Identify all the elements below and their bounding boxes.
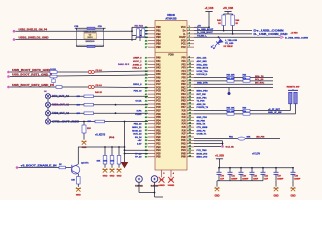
svg-text:INT4_TX: INT4_TX bbox=[197, 123, 206, 126]
ground flag C47 bbox=[273, 181, 278, 198]
svg-text:GND_JP_SW: GND_JP_SW bbox=[268, 112, 282, 114]
svg-text:GND: GND bbox=[214, 195, 219, 197]
wire collector up bbox=[77, 147, 79, 164]
svg-text:PD3: PD3 bbox=[156, 124, 161, 126]
svg-text:VCC: VCC bbox=[181, 27, 186, 29]
svg-text:PD4: PD4 bbox=[156, 119, 161, 122]
svg-text:100NF: 100NF bbox=[294, 179, 301, 181]
U5 bottom-section pin row 6 (PA5/PF5) bbox=[145, 73, 194, 76]
svg-text:PK3: PK3 bbox=[181, 94, 186, 96]
connector J4 pin 3 bbox=[45, 111, 69, 116]
svg-text:TP_29: TP_29 bbox=[135, 153, 142, 155]
wire D- row bbox=[194, 32, 252, 34]
U5 reference designator label bbox=[165, 14, 176, 20]
node net label left row 26 bbox=[138, 140, 142, 142]
svg-text:C4 1N: C4 1N bbox=[50, 68, 56, 71]
capacitor C40 bbox=[239, 167, 249, 181]
svg-text:+5V: +5V bbox=[197, 26, 201, 28]
wire LED row bbox=[194, 35, 280, 38]
ground flag R42 bbox=[116, 168, 121, 177]
U5 bottom-section pin row 2 (PA1/PF1) bbox=[145, 60, 194, 63]
svg-text:PK7: PK7 bbox=[181, 107, 186, 109]
svg-text:PK0: PK0 bbox=[181, 84, 186, 86]
wire bottom right row3 with port bbox=[194, 141, 235, 149]
svg-text:R4AD J5 R: R4AD J5 R bbox=[118, 63, 130, 66]
svg-text:PE0: PE0 bbox=[156, 137, 161, 139]
capacitor C48 bbox=[291, 167, 301, 181]
wire D+ row bbox=[194, 29, 252, 31]
U5 bottom-section pin row 20 (PD4/PJ3) bbox=[145, 119, 194, 122]
label R44 J5 bbox=[118, 63, 130, 66]
svg-text:SCK_23: SCK_23 bbox=[133, 134, 142, 136]
svg-text:SDA_D1: SDA_D1 bbox=[255, 75, 264, 78]
svg-text:ADC_9M1: ADC_9M1 bbox=[197, 60, 208, 63]
node +5_KEYS label bbox=[95, 135, 106, 137]
node net label right row 24 bbox=[197, 134, 208, 136]
svg-text:UCAP: UCAP bbox=[179, 36, 186, 39]
node net label left row 31 bbox=[135, 157, 142, 159]
power flag +5_USB caps bbox=[215, 156, 224, 168]
testpoint TP1 bbox=[135, 176, 143, 188]
svg-text:PC3: PC3 bbox=[156, 97, 161, 99]
power flag +5_USB top bbox=[205, 8, 214, 27]
node USB_SHIELD_GND2 port bbox=[13, 38, 49, 41]
wire bottom right row2 bbox=[194, 143, 223, 145]
resistor R45 bbox=[217, 14, 225, 32]
svg-text:PB3: PB3 bbox=[156, 37, 161, 39]
node net label right row 3 bbox=[197, 63, 209, 66]
node D-_USB_CONN label bbox=[254, 33, 288, 36]
ground flag C48 bbox=[290, 181, 295, 198]
svg-text:PH1: PH1 bbox=[181, 140, 186, 142]
capacitor C70 bbox=[217, 167, 225, 181]
svg-text:PD6: PD6 bbox=[156, 114, 161, 116]
node net label left row 21 bbox=[134, 124, 143, 126]
node net label right row 12 bbox=[197, 94, 207, 96]
svg-text:PH4: PH4 bbox=[181, 149, 186, 152]
svg-text:+5_KEYS: +5_KEYS bbox=[95, 135, 106, 137]
wire base row bbox=[18, 167, 71, 169]
resistor R31 bbox=[227, 108, 235, 112]
node net label right row 19 bbox=[197, 117, 208, 119]
node UBOOT3 port bbox=[7, 85, 55, 88]
ground flag R41 bbox=[109, 168, 114, 177]
resistor R22 bbox=[227, 78, 235, 82]
wire U3 to series resistors row2 bbox=[104, 37, 149, 39]
wire vertical joint x132 bbox=[132, 27, 148, 41]
connector J4 label bbox=[44, 90, 47, 93]
wire U3 to series resistors row1 bbox=[104, 27, 149, 31]
svg-text:10NF: 10NF bbox=[253, 179, 259, 181]
ground flag R40 bbox=[102, 168, 107, 177]
U5 bottom-section pin row 28 (PE3/PH3) bbox=[145, 145, 194, 148]
U5 bottom-section pin row 25 (PE0/PH0) bbox=[145, 136, 194, 139]
fuse F1 row 72 bbox=[88, 70, 102, 74]
U5 bottom-section pin row 23 (PD1/PJ6) bbox=[145, 129, 194, 132]
svg-text:PB0: PB0 bbox=[156, 27, 161, 29]
wire right row R22 bbox=[194, 79, 273, 81]
svg-text:GND_DTR: GND_DTR bbox=[197, 82, 208, 84]
svg-text:F1 0.5: F1 0.5 bbox=[96, 70, 103, 72]
svg-text:D3 YELW: D3 YELW bbox=[224, 46, 233, 48]
svg-text:D-_USB_CONN_PAD: D-_USB_CONN_PAD bbox=[254, 33, 288, 36]
U5 bottom-section pin row 24 (PD0/PJ7) bbox=[145, 132, 194, 135]
resistor R40 label bbox=[95, 91, 103, 94]
wire pullup rail bbox=[78, 146, 125, 148]
svg-text:PD0: PD0 bbox=[156, 134, 161, 136]
node UBOOT2 port bbox=[7, 75, 52, 78]
svg-text:10K: 10K bbox=[111, 161, 115, 163]
svg-text:UGND: UGND bbox=[168, 185, 175, 187]
node net label left row 22 bbox=[132, 127, 142, 129]
node BOOT_EN port bbox=[16, 165, 57, 169]
svg-text:PC7: PC7 bbox=[156, 84, 161, 86]
resistor box row 87 bbox=[56, 86, 62, 89]
svg-text:CLKO: CLKO bbox=[135, 114, 141, 116]
U5 bottom-section pin row 11 (PC5/PK2) bbox=[145, 89, 194, 92]
connector J4 pin 2 bbox=[45, 102, 69, 107]
svg-text:100NF: 100NF bbox=[242, 179, 249, 181]
svg-text:PK4: PK4 bbox=[181, 96, 186, 99]
svg-text:PC2: PC2 bbox=[156, 101, 161, 103]
U3 bottom text bbox=[86, 41, 95, 43]
svg-text:PC0: PC0 bbox=[181, 40, 186, 42]
svg-text:D-: D- bbox=[183, 34, 186, 36]
node net label right row 11 bbox=[197, 91, 209, 93]
no-connect flag AGND bbox=[158, 177, 165, 187]
resistor R37 base bbox=[59, 164, 66, 169]
wire USB row1 left bbox=[15, 30, 76, 32]
svg-text:OC0B_T1: OC0B_T1 bbox=[197, 134, 208, 136]
svg-text:AGND_2: AGND_2 bbox=[133, 63, 143, 66]
capacitor C42 bbox=[250, 167, 259, 181]
svg-text:R21 22R: R21 22R bbox=[227, 75, 235, 77]
connector J4 pin 4 bbox=[45, 119, 80, 124]
svg-text:PCINT8_T0: PCINT8_T0 bbox=[197, 107, 209, 109]
svg-text:PD5_10: PD5_10 bbox=[134, 91, 143, 93]
svg-text:AVCC_1: AVCC_1 bbox=[133, 60, 142, 63]
node net label right row 29 bbox=[197, 150, 208, 152]
node net label right row 31 bbox=[197, 157, 208, 159]
U5 bottom-section pin row 9 (PC7/PK0) bbox=[145, 83, 194, 86]
svg-text:MISO_3V3: MISO_3V3 bbox=[197, 157, 208, 159]
U5 bottom-section pin row 26 (PE1/PH1) bbox=[145, 139, 194, 142]
wire SW1 leg1 bbox=[194, 104, 290, 111]
svg-text:PC5: PC5 bbox=[156, 91, 161, 93]
svg-text:RST_DW: RST_DW bbox=[197, 94, 207, 96]
svg-text:PE2_20: PE2_20 bbox=[134, 124, 143, 126]
svg-text:AIN0_D6: AIN0_D6 bbox=[197, 103, 207, 106]
capacitor C41 bbox=[228, 167, 238, 181]
svg-text:UVCON_D: UVCON_D bbox=[197, 74, 208, 76]
U3 top text bbox=[84, 32, 97, 34]
svg-text:UID_PIN: UID_PIN bbox=[256, 137, 265, 139]
resistor box row 72 bbox=[50, 68, 57, 73]
svg-text:D_USB_GND_CONN: D_USB_GND_CONN bbox=[285, 37, 308, 39]
U5 top-section pin row 2 (PB1/D+) bbox=[145, 29, 194, 32]
no-connect flag UGND bbox=[168, 177, 175, 187]
wire J4 chain bbox=[47, 116, 49, 119]
svg-text:D+_USB_CONN: D+_USB_CONN bbox=[254, 31, 285, 33]
svg-text:XTAL_EX2: XTAL_EX2 bbox=[197, 63, 209, 66]
wire row 72 bbox=[10, 71, 148, 72]
wire caps top bus bbox=[219, 167, 293, 169]
resistor R42 pulldown bbox=[111, 146, 121, 168]
node net label right row 23 bbox=[197, 129, 207, 132]
svg-text:GND: GND bbox=[110, 176, 115, 178]
wire J4 row 1 to U5 bbox=[51, 95, 148, 97]
svg-text:INT_RTC: INT_RTC bbox=[255, 82, 265, 84]
svg-text:PB1: PB1 bbox=[156, 31, 161, 33]
wire bottom right row1 bbox=[194, 140, 223, 142]
U5 bottom-section pin row 1 (PA0/PF0) bbox=[145, 56, 194, 59]
U5 top-section pin row 1 (PB0/VCC) bbox=[145, 26, 194, 29]
RZ labels bbox=[135, 26, 144, 28]
svg-text:100NF: 100NF bbox=[231, 179, 238, 181]
node net label right row 16 bbox=[197, 107, 209, 109]
junction dots USB routing bbox=[131, 30, 141, 36]
svg-text:3.3V: 3.3V bbox=[137, 144, 142, 146]
svg-text:UC3X_T2A: UC3X_T2A bbox=[197, 70, 209, 73]
svg-text:GND: GND bbox=[117, 176, 122, 178]
node net label right row 6 bbox=[197, 74, 208, 76]
svg-text:PC2: PC2 bbox=[181, 47, 186, 49]
resistor R33 bbox=[243, 108, 251, 112]
U5 top-section pin row 4 (PB3/UCAP) bbox=[145, 35, 194, 39]
svg-text:100NF: 100NF bbox=[277, 179, 284, 181]
node +5 R50 label bbox=[291, 32, 299, 34]
node net label right row 21 bbox=[197, 123, 206, 126]
wire +5 rail vertical bbox=[124, 121, 126, 147]
svg-text:PD1: PD1 bbox=[156, 130, 161, 132]
node net label left row 23 bbox=[132, 130, 142, 132]
svg-text:10K: 10K bbox=[104, 161, 108, 163]
node net label left row 17 bbox=[137, 111, 143, 113]
ground flag under C30 bbox=[81, 141, 86, 150]
svg-text:PH5: PH5 bbox=[181, 153, 186, 155]
U5 bottom-section pin row 21 (PD3/PJ4) bbox=[145, 122, 194, 125]
resistor RN row 2 bbox=[77, 103, 94, 106]
svg-text:GND: GND bbox=[82, 147, 87, 149]
svg-text:MISO_PB3: MISO_PB3 bbox=[197, 91, 209, 93]
U5 top-section pin row 5 (PB4/PC0) bbox=[145, 39, 194, 42]
svg-text:PC2_TMS: PC2_TMS bbox=[197, 150, 208, 152]
U5 bottom-section pin row 13 (PC3/PK4) bbox=[145, 96, 194, 99]
node net label left row 24 bbox=[133, 134, 142, 136]
svg-text:PE3: PE3 bbox=[156, 147, 161, 149]
resistor R24 bbox=[243, 77, 251, 82]
wire J4 row 4 to U5 bbox=[51, 121, 148, 123]
svg-text:1K: 1K bbox=[218, 23, 221, 25]
testpoint TP2 bbox=[151, 176, 159, 188]
U5 bottom-section pin row 10 (PC6/PK1) bbox=[145, 86, 194, 89]
wire right row UID with ferrite bbox=[194, 136, 280, 140]
svg-text:+5_JP_RST: +5_JP_RST bbox=[268, 109, 281, 111]
wire J4 row 3 to U5 bbox=[51, 112, 148, 114]
svg-text:R40 1K: R40 1K bbox=[95, 91, 103, 94]
capacitor C30 vertical bbox=[82, 121, 91, 140]
resistor R34 bbox=[243, 110, 251, 115]
capacitor C top of U3 bbox=[74, 26, 105, 30]
svg-text:SS_24: SS_24 bbox=[135, 136, 142, 139]
svg-text:PK2: PK2 bbox=[181, 91, 186, 93]
resistor RZ1 bbox=[136, 29, 139, 37]
resistor box row 76.5 bbox=[50, 75, 57, 83]
svg-text:GND: GND bbox=[103, 176, 108, 178]
node net label left row 9 bbox=[133, 84, 142, 86]
svg-text:+5 3.3V: +5 3.3V bbox=[252, 154, 260, 156]
svg-text:PC0: PC0 bbox=[156, 107, 161, 109]
wire J4 row 2 to U5 bbox=[51, 104, 148, 106]
U5 bottom-section pin row 14 (PC2/PK5) bbox=[145, 99, 194, 102]
svg-text:PA6: PA6 bbox=[156, 77, 161, 80]
wire row 87 bbox=[10, 86, 148, 89]
U5 bottom-section pin row 19 (PD5/PJ2) bbox=[145, 116, 194, 119]
svg-text:PB5: PB5 bbox=[156, 44, 161, 46]
ground flag Q2 bbox=[76, 187, 81, 196]
capacitor C bottom of U3 bbox=[77, 45, 104, 47]
U5 bottom-section pin row 16 (PC0/PK7) bbox=[145, 106, 194, 109]
node net label left row 27 bbox=[137, 144, 142, 146]
svg-text:GND: GND bbox=[290, 195, 295, 197]
wire right row 84.2 bbox=[194, 82, 273, 84]
U5 bottom-section pin row 12 (PC4/PK3) bbox=[145, 93, 194, 96]
wire emitter down bbox=[77, 174, 79, 177]
capacitor C44 bbox=[261, 167, 269, 181]
svg-text:XTAL2_3: XTAL2_3 bbox=[132, 67, 142, 70]
svg-text:TX_LED: TX_LED bbox=[225, 43, 234, 45]
node net label right row 14 bbox=[197, 101, 206, 103]
svg-text:AIN2_P2: AIN2_P2 bbox=[197, 129, 207, 132]
svg-text:PE2: PE2 bbox=[156, 144, 161, 146]
wire caps bottom bus bbox=[217, 181, 263, 187]
fuse F2 row 87 bbox=[88, 85, 102, 89]
capacitor C47 bbox=[274, 167, 284, 181]
U5 bottom-section pin row 30 (PE5/PH5) bbox=[145, 152, 194, 155]
U5 bottom-section pin row 5 (PA4/PF4) bbox=[145, 70, 194, 73]
svg-text:RXD1_8: RXD1_8 bbox=[133, 84, 142, 86]
svg-text:PA7: PA7 bbox=[156, 80, 161, 83]
node net label left row 30 bbox=[135, 153, 142, 155]
svg-text:ICP1: ICP1 bbox=[137, 111, 143, 113]
node (R14) label bbox=[109, 136, 115, 139]
svg-text:AGND: AGND bbox=[158, 184, 165, 187]
node net label left row 4 bbox=[132, 67, 142, 70]
node net label left row 1 bbox=[133, 57, 142, 60]
svg-text:PD7: PD7 bbox=[156, 111, 161, 113]
svg-text:SCL_D0: SCL_D0 bbox=[255, 79, 264, 81]
resistor RN row 1 bbox=[77, 95, 94, 98]
U5 bottom-section pin row 15 (PC1/PK6) bbox=[145, 103, 194, 106]
resistor RZ2 bbox=[142, 29, 145, 37]
svg-text:+5V: +5V bbox=[138, 140, 142, 142]
resistor R23 bbox=[243, 75, 251, 79]
node net label left row 2 bbox=[133, 60, 142, 63]
svg-text:PA5: PA5 bbox=[156, 73, 161, 76]
power flag +5V pullups bbox=[223, 8, 234, 14]
wire to pin row 33.9 bbox=[140, 34, 148, 36]
svg-text:PK5: PK5 bbox=[181, 101, 186, 103]
node net label right row 1 bbox=[197, 57, 207, 60]
U5 bottom-section pin row 7 (PA6/PF6) bbox=[145, 75, 194, 79]
svg-text:PE5: PE5 bbox=[156, 153, 161, 155]
svg-text:PA0: PA0 bbox=[156, 57, 161, 60]
svg-text:Gnd_Sh: Gnd_Sh bbox=[226, 146, 235, 148]
wire SW1 leg2 bbox=[194, 104, 296, 114]
resistor R40 pulldown bbox=[97, 146, 107, 168]
node net label left row 18 bbox=[135, 114, 141, 116]
LED D3 bbox=[211, 37, 238, 49]
wire through U3 row1 bbox=[77, 30, 104, 32]
svg-text:R32 10K: R32 10K bbox=[227, 111, 235, 113]
svg-text:60R: 60R bbox=[247, 136, 251, 138]
svg-text:RESET1 SW: RESET1 SW bbox=[287, 86, 301, 88]
svg-text:SS_PB0: SS_PB0 bbox=[197, 120, 206, 122]
svg-text:D+_USB_BOOT: D+_USB_BOOT bbox=[197, 29, 214, 31]
svg-text:PC1: PC1 bbox=[156, 104, 161, 106]
wire right row R21 bbox=[194, 75, 273, 78]
node net label right row 30 bbox=[197, 153, 208, 155]
node net label left row 14 bbox=[135, 100, 141, 103]
switch SW1 body bbox=[288, 89, 298, 104]
svg-text:PC6: PC6 bbox=[156, 87, 161, 89]
resistor R32 bbox=[227, 111, 235, 115]
node net label right row 2 bbox=[197, 60, 208, 63]
node net label right row 20 bbox=[197, 120, 206, 122]
ground flag caps group1 bbox=[214, 187, 219, 197]
svg-text:+5 R50: +5 R50 bbox=[291, 32, 299, 34]
svg-text:F2 0.5: F2 0.5 bbox=[96, 85, 103, 87]
resistor R46 bbox=[231, 14, 240, 35]
node net label left row 11 bbox=[134, 91, 143, 93]
svg-text:PDI0: PDI0 bbox=[168, 54, 174, 57]
svg-text:PA3: PA3 bbox=[156, 67, 161, 70]
svg-text:GND: GND bbox=[273, 195, 278, 197]
svg-text:PH3: PH3 bbox=[181, 147, 186, 149]
wire row 76.5 bbox=[10, 75, 148, 77]
resistor R41 pulldown bbox=[104, 146, 114, 168]
svg-text:PE6: PE6 bbox=[156, 157, 161, 159]
svg-text:AT90USB: AT90USB bbox=[165, 17, 176, 20]
U5 bottom-section pin row 4 (PA3/PF3) bbox=[145, 66, 194, 69]
transistor Q2 bbox=[71, 163, 89, 174]
svg-text:MOSI_3V3: MOSI_3V3 bbox=[197, 153, 208, 155]
node net label right row 4 bbox=[197, 68, 209, 70]
U5 section label PDI bbox=[168, 54, 174, 57]
svg-text:(R14): (R14) bbox=[109, 136, 115, 139]
node net label right row 15 bbox=[197, 103, 207, 106]
svg-text:D-_USB_BOOT: D-_USB_BOOT bbox=[197, 32, 213, 34]
svg-text:PD2: PD2 bbox=[156, 127, 161, 129]
switch SW1 RESET label bbox=[287, 86, 301, 88]
svg-text:PB2: PB2 bbox=[156, 34, 161, 36]
svg-text:PC1: PC1 bbox=[181, 44, 186, 46]
node UBOOT1 port bbox=[7, 70, 50, 73]
wire VCC row bbox=[194, 26, 210, 29]
U5 bottom pins AGND/UGND bbox=[162, 170, 175, 177]
svg-text:PA1: PA1 bbox=[156, 60, 161, 63]
svg-text:GND_EXT2: GND_EXT2 bbox=[197, 68, 209, 70]
svg-text:22U: 22U bbox=[87, 128, 91, 130]
wire USB row2 left bbox=[15, 39, 76, 41]
junction dots J4 rows bbox=[115, 104, 117, 114]
svg-text:CTS_HWB: CTS_HWB bbox=[197, 127, 208, 129]
wire TP1 to TP2 bbox=[139, 182, 163, 197]
U5 bottom-section pin row 31 (PE6/PH6) bbox=[145, 155, 194, 158]
svg-text:PK6: PK6 bbox=[181, 104, 186, 106]
resistor R21 bbox=[227, 75, 235, 79]
svg-text:TXLED_L: TXLED_L bbox=[197, 35, 207, 37]
